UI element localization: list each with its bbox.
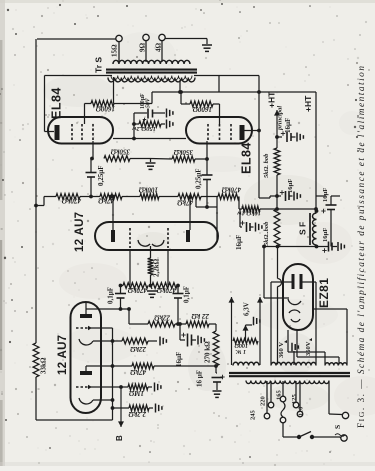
wire pot wiper <box>243 325 253 341</box>
wire HT centre tap <box>179 80 181 92</box>
resistor R15 1600 ohms <box>190 101 213 107</box>
resistor R2 2.2k cathode <box>129 405 149 411</box>
label C6 0.25uF <box>195 168 203 189</box>
svg-text:2,2kΩ: 2,2kΩ <box>153 258 161 277</box>
label Tr.S <box>94 57 104 73</box>
ground C8 <box>198 336 204 345</box>
capacitor C6 0.25uF <box>202 159 213 207</box>
switch mains <box>297 432 314 440</box>
svg-text:47kΩ: 47kΩ <box>177 199 195 207</box>
wire primary right to mains <box>329 381 342 415</box>
svg-text:S F: S F <box>298 222 308 235</box>
label R5 33k <box>40 357 48 374</box>
label 245 <box>250 410 257 421</box>
node 4-ohm terminal <box>159 34 165 40</box>
transformer core <box>229 373 350 376</box>
wire plate V3 lead <box>45 131 55 133</box>
svg-text:150Ω.2w: 150Ω.2w <box>132 125 156 132</box>
label tube V4 EL84 <box>240 142 254 174</box>
svg-text:165: 165 <box>276 390 283 401</box>
choke SF <box>310 209 318 245</box>
wire grid-stop drops <box>196 197 217 241</box>
wire OPT primary right end to V4 plate line <box>194 76 259 93</box>
transformer Tr.S primary <box>108 76 195 82</box>
wire feedback to cathode <box>36 377 113 420</box>
wire mains tap 220 <box>270 381 272 402</box>
capacitor C8 16uF decoupling <box>180 324 196 347</box>
capacitor C11 16uF <box>275 190 292 201</box>
svg-text:+HT: +HT <box>267 91 277 108</box>
tube V5 EZ81 envelope <box>283 264 313 330</box>
ground R3 <box>148 337 166 346</box>
resistor R12 470k <box>218 194 239 200</box>
wire row to 270k <box>209 324 216 331</box>
label tube V2 12AU7 <box>74 212 86 252</box>
svg-text:350kΩ: 350kΩ <box>110 148 131 156</box>
svg-text:EZ81: EZ81 <box>317 278 331 308</box>
wire 22k link <box>175 323 186 325</box>
wire tail to divider <box>149 275 153 287</box>
label R22 270k <box>204 341 212 363</box>
label R23 5k bob <box>263 153 270 178</box>
wire plate V4 lead <box>244 130 259 132</box>
ground C7 <box>167 109 173 118</box>
tube V3 grid g1 <box>92 124 94 141</box>
capacitor C12 16uF <box>240 209 254 232</box>
label R7 47k <box>98 197 116 205</box>
node 9-ohm terminal <box>143 34 149 40</box>
label R16 150 ohms 2W <box>132 125 156 132</box>
tube V2 cathodes <box>138 240 164 246</box>
node choke bottom <box>315 245 319 249</box>
wire bias network stem <box>132 113 136 140</box>
label R2 2.2k <box>128 410 147 418</box>
tube V5 cathode <box>288 299 301 305</box>
wire left grid V2 <box>129 250 131 286</box>
wire cathodes to tail <box>150 246 152 258</box>
label C8 16uF <box>175 333 186 367</box>
tube V1 cathode b <box>79 398 93 404</box>
tube V3 grid g3 <box>71 124 73 141</box>
wire grid b lead <box>91 385 128 389</box>
svg-text:1MΩ: 1MΩ <box>128 389 144 397</box>
ground C11 <box>294 192 300 201</box>
resistor R14 1600 ohms <box>91 101 114 107</box>
label R19 470k <box>156 286 177 294</box>
node tap 165 <box>280 396 286 402</box>
wire feedback tap from 15-ohm terminal <box>37 38 116 40</box>
label R15 1600 ohms <box>192 105 212 113</box>
svg-text:1 W.: 1 W. <box>235 348 246 354</box>
label C3 0.1uF <box>107 287 115 304</box>
label SF <box>298 222 308 235</box>
wire OPT primary left end to EL84 V3 plate <box>45 76 113 132</box>
label 360V left <box>278 340 287 358</box>
tube V2 right plate <box>186 230 190 242</box>
svg-text:22kΩ: 22kΩ <box>130 345 148 353</box>
capacitor C7 100uF 50V <box>134 109 165 122</box>
label R3 22k <box>130 345 148 353</box>
capacitor C9 16uF <box>212 366 223 390</box>
wire divider ends <box>119 284 180 288</box>
svg-text:0,1µF: 0,1µF <box>107 287 115 304</box>
wire grid g1 V3 to coupling <box>92 141 94 159</box>
wire grid a lead <box>91 328 113 341</box>
tube V3 plate <box>55 125 60 140</box>
label C9 16uF <box>196 370 225 387</box>
label C13 16uF <box>322 188 329 202</box>
wire plate a lead <box>86 302 131 314</box>
terminal +HT principal <box>274 110 280 148</box>
svg-text:15Ω: 15Ω <box>111 44 119 57</box>
label 9 ohms <box>139 43 147 53</box>
svg-text:16µF: 16µF <box>322 188 329 202</box>
tube V1 12AU7 envelope <box>71 302 102 413</box>
wire +HT rail <box>315 92 317 211</box>
label 220 <box>260 396 267 406</box>
label R4 47k <box>130 368 148 376</box>
resistor R8 100k <box>140 194 159 200</box>
svg-text:Tr S: Tr S <box>94 57 104 73</box>
svg-text:0,25µF: 0,25µF <box>195 168 203 189</box>
ground HT centre tap <box>292 343 298 352</box>
tube V3 grid g2 <box>81 124 83 141</box>
wire rectifier feed with hop <box>278 247 282 365</box>
label C7 100uF 50V <box>140 93 152 109</box>
resistor R10 350k <box>104 156 130 162</box>
tube V4 grid g3 <box>230 124 232 141</box>
label R9 47k <box>177 199 195 207</box>
transformer Tr.S core <box>106 70 197 73</box>
label R18 470k <box>127 286 148 294</box>
label R1 1M <box>128 389 144 397</box>
svg-text:360V: 360V <box>305 341 312 356</box>
svg-text:9Ω: 9Ω <box>139 43 147 53</box>
ground R2 <box>149 404 162 413</box>
ground R16 <box>167 120 173 129</box>
tube V4 EL84 envelope <box>186 117 252 144</box>
wire screen feed V4 <box>179 90 190 104</box>
resistor R22 270k <box>213 331 219 366</box>
node mains terminal upper <box>342 412 348 418</box>
svg-text:EL84: EL84 <box>50 87 64 119</box>
svg-text:50V: 50V <box>146 97 152 108</box>
wire plate a to load row <box>128 309 130 324</box>
label R11 350k <box>173 148 194 156</box>
ground between 350k resistors <box>146 163 156 169</box>
wire cathode to R2 <box>113 407 130 409</box>
wire grid g1 V4 to coupling <box>206 141 208 159</box>
svg-text:EL84: EL84 <box>240 142 254 174</box>
svg-text:S: S <box>333 425 342 429</box>
label C12 16uF <box>235 235 243 250</box>
wire heater line right <box>257 297 263 365</box>
resistor R3 22k cathode <box>122 338 148 344</box>
wire R7-R8 link <box>109 195 140 199</box>
wire right grid V2 <box>167 250 169 286</box>
wire screen feed V3 <box>114 92 152 104</box>
label C14 16uF <box>322 228 329 242</box>
wire selector to switch <box>283 423 297 437</box>
wire 4-ohm tap <box>161 41 163 63</box>
label C4 0.1uF <box>183 286 191 303</box>
wire B+ takeoff <box>264 247 289 299</box>
wire heater line left <box>229 297 235 365</box>
node 15-ohm terminal <box>116 35 122 41</box>
capacitor C4 0.1uF <box>173 286 184 326</box>
transformer primary winding <box>246 381 329 384</box>
svg-text:1600Ω: 1600Ω <box>192 105 212 113</box>
label 110 <box>298 407 305 416</box>
wire plate b lead <box>86 364 114 371</box>
label tube V5 EZ81 <box>317 278 331 308</box>
input terminal B <box>115 387 124 441</box>
tube V1 cathode a <box>79 339 93 345</box>
svg-text:16µF: 16µF <box>284 118 292 133</box>
tube V3 EL84 envelope <box>48 117 113 144</box>
capacitor C14 16uF reservoir <box>322 242 337 253</box>
label 6.3V <box>243 302 251 316</box>
svg-text:270 kΩ: 270 kΩ <box>204 341 212 363</box>
svg-text:16 µF: 16 µF <box>196 370 204 387</box>
label 4 ohms <box>155 43 163 53</box>
svg-text:6,3V: 6,3V <box>243 302 251 316</box>
node selector <box>280 417 286 423</box>
node junction C6 <box>205 205 209 209</box>
wire R6 return to bus <box>34 197 44 208</box>
wire plate line V4 <box>258 92 260 198</box>
resistor R17 2.2k tail <box>148 258 154 275</box>
capacitor C5 0.25uF <box>86 157 97 197</box>
svg-text:FIG. 3. — Schéma de l'amplific: FIG. 3. — Schéma de l'amplificateur de p… <box>356 66 367 428</box>
label R12 470k <box>221 186 242 194</box>
svg-text:350kΩ: 350kΩ <box>173 148 194 156</box>
wire R12 drop <box>239 197 242 210</box>
node plate V4 junction <box>257 129 261 133</box>
svg-text:470kΩ: 470kΩ <box>127 286 148 294</box>
tube V5 plate 1 <box>292 274 295 289</box>
svg-text:360 V: 360 V <box>278 342 285 358</box>
svg-text:5kΩ..bob: 5kΩ..bob <box>263 221 270 246</box>
node row junction <box>178 322 182 326</box>
tube V2 12AU7 envelope <box>95 222 218 250</box>
ground R1 <box>148 383 161 392</box>
tube V5 heater <box>289 310 300 322</box>
resistor R6 470k <box>44 194 80 200</box>
label R10 350k <box>110 148 131 156</box>
svg-text:125: 125 <box>291 394 298 405</box>
wire cathode b lead <box>93 399 113 401</box>
resistor R4 47k <box>132 363 154 369</box>
svg-text:12 AU7: 12 AU7 <box>74 212 86 252</box>
label R6 470k <box>61 197 82 205</box>
label R17 2.2k <box>153 258 161 277</box>
wire HT feed line <box>260 207 318 211</box>
potentiometer 100R hum balance <box>233 338 258 343</box>
svg-text:100Ω: 100Ω <box>234 342 248 348</box>
svg-text:470kΩ: 470kΩ <box>221 186 242 194</box>
capacitor C10 16uF <box>277 131 296 142</box>
resistor R18 470k divider <box>123 283 148 289</box>
svg-text:16µF: 16µF <box>175 352 183 367</box>
svg-text:2,2kΩ: 2,2kΩ <box>128 410 147 418</box>
ground divider centre <box>147 286 157 298</box>
label R24 5k bob <box>263 221 270 246</box>
caption Fig.3 <box>356 66 367 428</box>
node centre tap on HT line <box>178 90 182 94</box>
node tap 220 <box>268 402 274 408</box>
transformer secondary rectifier winding <box>325 363 347 366</box>
resistor R20 22k <box>148 321 175 327</box>
wire cathode a lead <box>93 339 122 343</box>
wire mains tap 245 <box>266 381 268 413</box>
tube V4 plate <box>240 125 245 140</box>
svg-text:22 kΩ: 22 kΩ <box>191 312 210 320</box>
node mains terminal lower <box>341 435 347 441</box>
wire R10 to centre ground <box>130 159 151 163</box>
node tap 110 <box>297 411 303 417</box>
tube V1 grid a <box>76 326 92 330</box>
label 125 <box>291 394 298 405</box>
wire feedback run <box>35 39 37 343</box>
wire +HT rail top <box>152 91 316 93</box>
svg-text:22kΩ: 22kΩ <box>154 314 172 322</box>
node junction C5/R6/R7 <box>89 195 93 199</box>
wire mains tap 125 <box>295 381 297 402</box>
svg-text:33kΩ: 33kΩ <box>40 357 48 374</box>
wire switch to mains terminal <box>312 437 341 438</box>
tube V1 plate a <box>80 314 92 318</box>
wire screen V4 lead <box>213 104 220 124</box>
label R14 1600 ohms <box>95 105 115 113</box>
transformer Tr.S secondary <box>113 60 190 64</box>
svg-text:16µF: 16µF <box>322 228 329 242</box>
selector link <box>281 402 285 417</box>
wire R11 to grid node <box>195 157 209 161</box>
wire C13 stub <box>331 195 340 197</box>
wire 4-ohm terminal to ground <box>165 39 207 45</box>
wire cathode V3 <box>113 138 186 140</box>
svg-text:16µF: 16µF <box>287 179 294 193</box>
node plate line junction <box>257 90 261 94</box>
label R21 22k <box>191 312 210 320</box>
resistor R16 150 ohms 2W <box>132 121 165 127</box>
ground C12 <box>256 223 262 232</box>
resistor R9 47k <box>178 194 201 200</box>
svg-text:B: B <box>115 435 124 441</box>
wire mains tap 110 <box>299 381 301 411</box>
label C5 0.25uF <box>97 165 105 186</box>
ground pot wiper <box>254 317 260 326</box>
wire cathode V5 right <box>313 309 347 365</box>
wire plate right V2 <box>189 197 191 230</box>
label 100R <box>234 342 248 354</box>
node tap 245 <box>264 413 270 419</box>
wire 9-ohm tap <box>145 41 147 63</box>
svg-text:12 AU7: 12 AU7 <box>57 335 69 375</box>
resistor R1 1M grid leak <box>128 384 148 390</box>
resistor R19 470k divider <box>152 283 177 289</box>
wire OPT primary left to screen resistor <box>113 77 115 104</box>
wire grid bias row <box>129 323 148 325</box>
label tube V1 12AU7 <box>57 335 69 375</box>
ground C9 <box>213 391 222 397</box>
tube V4 grid g1 <box>207 124 209 141</box>
label 360V right <box>305 338 312 356</box>
resistor R23 5k wirewound <box>274 148 280 175</box>
wire R11 to centre ground <box>151 158 173 161</box>
resistor R7 47k <box>100 194 122 200</box>
label 15 ohms <box>111 44 119 57</box>
wire cathode bus <box>111 341 115 420</box>
tube V1 plate b <box>80 371 92 375</box>
tube V5 plate 2 <box>300 274 303 289</box>
tube V4 grid g2 <box>219 124 221 141</box>
node tap 125 <box>293 402 299 408</box>
ground C14 <box>338 242 344 251</box>
wire heater V5 leads <box>288 330 339 365</box>
label tube V3 EL84 <box>50 87 64 119</box>
ground C10 <box>297 133 303 142</box>
wire 15-ohm tap to secondary <box>118 42 120 63</box>
tube V2 right grid <box>167 228 169 248</box>
svg-text:110: 110 <box>298 407 305 416</box>
label R13 10k 1W <box>237 210 261 217</box>
resistor R21 22k <box>186 321 209 327</box>
wire R8-R9 link <box>159 196 178 198</box>
label R8 100k <box>138 186 158 194</box>
wire R23 to R24 <box>276 175 278 209</box>
svg-text:0,25µF: 0,25µF <box>97 165 105 186</box>
tube V1 grid b <box>76 385 92 389</box>
svg-text:principal: principal <box>277 106 284 131</box>
label +HT <box>303 95 313 112</box>
svg-text:100kΩ: 100kΩ <box>138 186 158 194</box>
svg-text:+HT: +HT <box>303 95 313 112</box>
wire R9-R12 link <box>188 195 218 199</box>
ground secondary <box>202 45 212 51</box>
wire mains tap 165 <box>282 381 284 396</box>
tube V2 left grid <box>129 228 131 248</box>
svg-text:470kΩ: 470kΩ <box>61 197 82 205</box>
wire filtered B+ line <box>262 245 328 249</box>
wire plate left V2 <box>111 195 115 230</box>
svg-text:220: 220 <box>260 396 267 406</box>
wire screen V3 lead <box>85 104 92 125</box>
wire R4 to 270k bottom <box>154 365 216 367</box>
label R20 22k <box>154 314 172 322</box>
svg-text:1600Ω: 1600Ω <box>95 105 115 113</box>
label C11 16uF <box>287 179 294 193</box>
wire plate line to C11 node <box>259 196 277 198</box>
transformer secondary HT winding <box>271 362 316 365</box>
svg-text:16µF: 16µF <box>235 235 243 250</box>
wire R6-R7 link <box>80 196 100 198</box>
svg-text:245: 245 <box>250 410 257 421</box>
capacitor C3 0.1uF <box>115 286 126 311</box>
transformer secondary 6.3V winding <box>233 362 259 365</box>
resistor R24 5k wirewound <box>274 209 280 247</box>
wire plate2 V5 to HT winding <box>303 282 317 365</box>
resistor R11 350k <box>172 156 195 162</box>
wire plate1 V5 to HT winding <box>271 282 292 365</box>
resistor R13 10k 1W <box>242 206 260 212</box>
wire HT centre tap <box>293 351 295 365</box>
resistor R5 33k feedback <box>33 343 39 377</box>
svg-text:0,1µF: 0,1µF <box>183 286 191 303</box>
label +HT principal <box>267 91 284 131</box>
svg-text:5kΩ. bob: 5kΩ. bob <box>263 153 270 178</box>
